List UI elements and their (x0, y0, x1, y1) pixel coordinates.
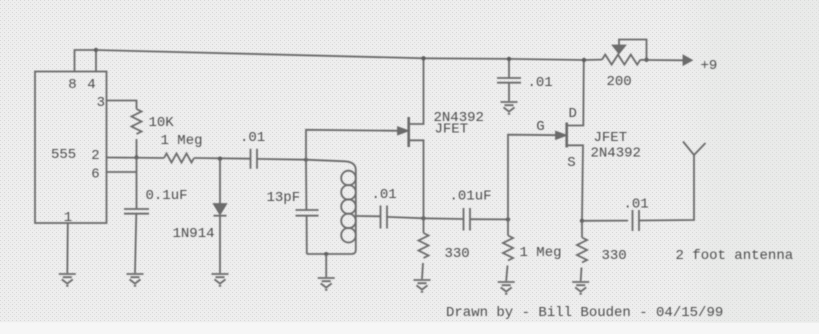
ground tank (318, 278, 335, 290)
label C1 .01 (240, 130, 265, 146)
svg-text:1 Meg: 1 Meg (520, 245, 562, 261)
potentiometer R6 200 (602, 55, 640, 65)
node D1 junction (218, 157, 222, 161)
node tank ground tap (324, 252, 328, 256)
svg-text:3: 3 (97, 95, 105, 111)
wire tank top to coil (306, 160, 356, 170)
wire R2 to C1 (194, 157, 250, 160)
label Q2 2N4392 (591, 146, 641, 162)
wire pin3 to 10K (107, 101, 137, 110)
node pin2 junction (134, 155, 138, 159)
capacitor C6 .01 (633, 210, 640, 231)
node Q2 drain rail junction (582, 58, 586, 62)
pin 8 label (68, 77, 76, 93)
label 555 (51, 147, 76, 163)
label 1N914 (173, 226, 215, 242)
transistor Q2 drain lead (568, 60, 584, 126)
svg-text:S: S (567, 155, 575, 171)
wire to +9 (641, 59, 685, 62)
resistor R3 330 (419, 218, 429, 279)
capacitor C2 0.1uF (124, 209, 149, 214)
node A junction (421, 216, 425, 220)
capacitor C1 .01 (251, 149, 258, 169)
resistor R5 330 (577, 221, 587, 281)
IC U1 555 body (35, 72, 107, 224)
svg-text:4: 4 (87, 77, 95, 93)
arrow +9 (684, 56, 692, 65)
ground under C2 (127, 274, 144, 286)
transistor Q1 drain lead (410, 58, 424, 124)
label 200 (607, 74, 632, 90)
wire pin2 to R2 (107, 157, 165, 160)
wire node B up to Q2 gate (508, 135, 562, 220)
label R3 330 (445, 246, 470, 262)
svg-text:.01uF: .01uF (450, 189, 492, 205)
svg-text:2N4392: 2N4392 (591, 146, 641, 162)
label 2 foot antenna (676, 248, 794, 264)
ground under R4 (498, 282, 515, 294)
resistor R2 1 Meg (164, 154, 194, 163)
label 13pF (267, 190, 301, 206)
pin 6 label (91, 167, 99, 183)
resistor R1 10K (132, 109, 142, 134)
wire tank node up to Q1 gate (306, 130, 404, 160)
wire pin4 stem (95, 50, 97, 72)
label Q1 2N4392 (434, 110, 484, 126)
label C4 .01 (372, 187, 397, 203)
label 10K (149, 115, 175, 131)
wire Q2 source to C6 (582, 220, 628, 222)
ground under D1 (212, 274, 229, 286)
transistor Q1 channel (407, 117, 410, 147)
wire tank node down to C3 (305, 160, 307, 210)
label 0.1uF (146, 188, 188, 204)
wire C6 to antenna (639, 155, 694, 221)
wire tank bottom (307, 253, 352, 255)
wire V+ rail (96, 50, 602, 60)
svg-text:330: 330 (602, 248, 627, 264)
svg-text:.01: .01 (372, 187, 397, 203)
svg-text:555: 555 (51, 147, 76, 163)
capacitor C7 .01 bypass (497, 59, 521, 101)
wire pin6 stem (107, 171, 137, 173)
ground under C7 (501, 102, 518, 114)
svg-text:13pF: 13pF (267, 190, 301, 206)
label 1 Meg (161, 133, 203, 149)
svg-text:1N914: 1N914 (173, 226, 215, 242)
wire tank ground stem (325, 254, 327, 277)
svg-text:330: 330 (445, 246, 470, 262)
node C7 rail junction (507, 57, 511, 61)
diode D1 1N914 (214, 159, 227, 273)
svg-text:G: G (536, 119, 544, 135)
svg-text:2 foot antenna: 2 foot antenna (676, 248, 794, 264)
wire pin2 node down to C2 (136, 158, 138, 209)
svg-text:JFET: JFET (594, 130, 628, 146)
transistor Q2 gate arrow (556, 132, 566, 139)
svg-text:Drawn by - Bill Bouden - 04/15: Drawn by - Bill Bouden - 04/15/99 (446, 305, 723, 321)
node tank input (304, 158, 308, 162)
node Q1 drain rail junction (421, 56, 425, 60)
label D (569, 106, 577, 122)
resistor R4 1 Meg (503, 219, 513, 281)
node pot right terminal (644, 58, 648, 62)
label C5 .01uF (450, 189, 492, 205)
wire C1 to tank node (257, 158, 306, 161)
svg-text:6: 6 (91, 167, 99, 183)
pin 2 label (91, 148, 99, 164)
wire C2 to ground (135, 214, 136, 273)
transistor Q1 source lead (410, 140, 424, 218)
wire pin1 stem (66, 223, 69, 273)
wire C3 to tank bottom (306, 216, 308, 254)
right scan tint (680, 0, 819, 323)
ground under pin1 (59, 274, 76, 286)
transistor Q2 source lead (568, 145, 584, 221)
node pin4 rail junction (94, 48, 98, 52)
pin 4 label (87, 77, 95, 93)
svg-text:8: 8 (68, 77, 76, 93)
svg-text:0.1uF: 0.1uF (146, 188, 188, 204)
wire coil tap to C4 (356, 215, 380, 217)
label S (567, 155, 575, 171)
svg-text:.01: .01 (240, 130, 265, 146)
label Q2 JFET (594, 130, 628, 146)
node B junction (506, 217, 510, 221)
node Q2 source junction (580, 219, 584, 223)
svg-text:+9: +9 (701, 58, 718, 74)
label +9 (701, 58, 718, 74)
wire 10K bottom to pin2 node (136, 139, 138, 158)
svg-text:JFET: JFET (435, 122, 469, 138)
label G (536, 119, 544, 135)
label Drawn by credit (446, 305, 723, 321)
svg-text:2: 2 (91, 148, 99, 164)
label C7 .01 (528, 75, 553, 91)
transistor Q2 channel (565, 123, 568, 148)
svg-text:200: 200 (607, 74, 632, 90)
wire C5 to node B (470, 218, 508, 220)
antenna ANT1 (683, 142, 706, 156)
svg-text:1 Meg: 1 Meg (161, 133, 203, 149)
svg-text:.01: .01 (528, 75, 553, 91)
pin 1 label (64, 210, 72, 226)
label R4 1 Meg (520, 245, 562, 261)
transistor Q1 2N4392 gate arrow (398, 127, 408, 134)
wire pin8 to V+ rail (75, 50, 97, 72)
label C6 .01 (624, 197, 649, 213)
label R5 330 (602, 248, 627, 264)
ground under R5 (572, 282, 589, 294)
svg-text:.01: .01 (624, 197, 649, 213)
capacitor C4 .01 (381, 206, 388, 229)
svg-text:10K: 10K (149, 115, 175, 131)
label Q1 JFET (435, 122, 469, 138)
svg-text:D: D (569, 106, 577, 122)
pin 3 label (97, 95, 105, 111)
inductor L1 (341, 170, 356, 254)
capacitor C5 .01uF (464, 208, 471, 231)
potentiometer wiper (613, 40, 647, 61)
wire node A to C5 (424, 217, 464, 220)
ground under R3 (414, 280, 431, 292)
wire C4 to node A (387, 217, 424, 218)
capacitor C3 13pF (296, 210, 319, 216)
